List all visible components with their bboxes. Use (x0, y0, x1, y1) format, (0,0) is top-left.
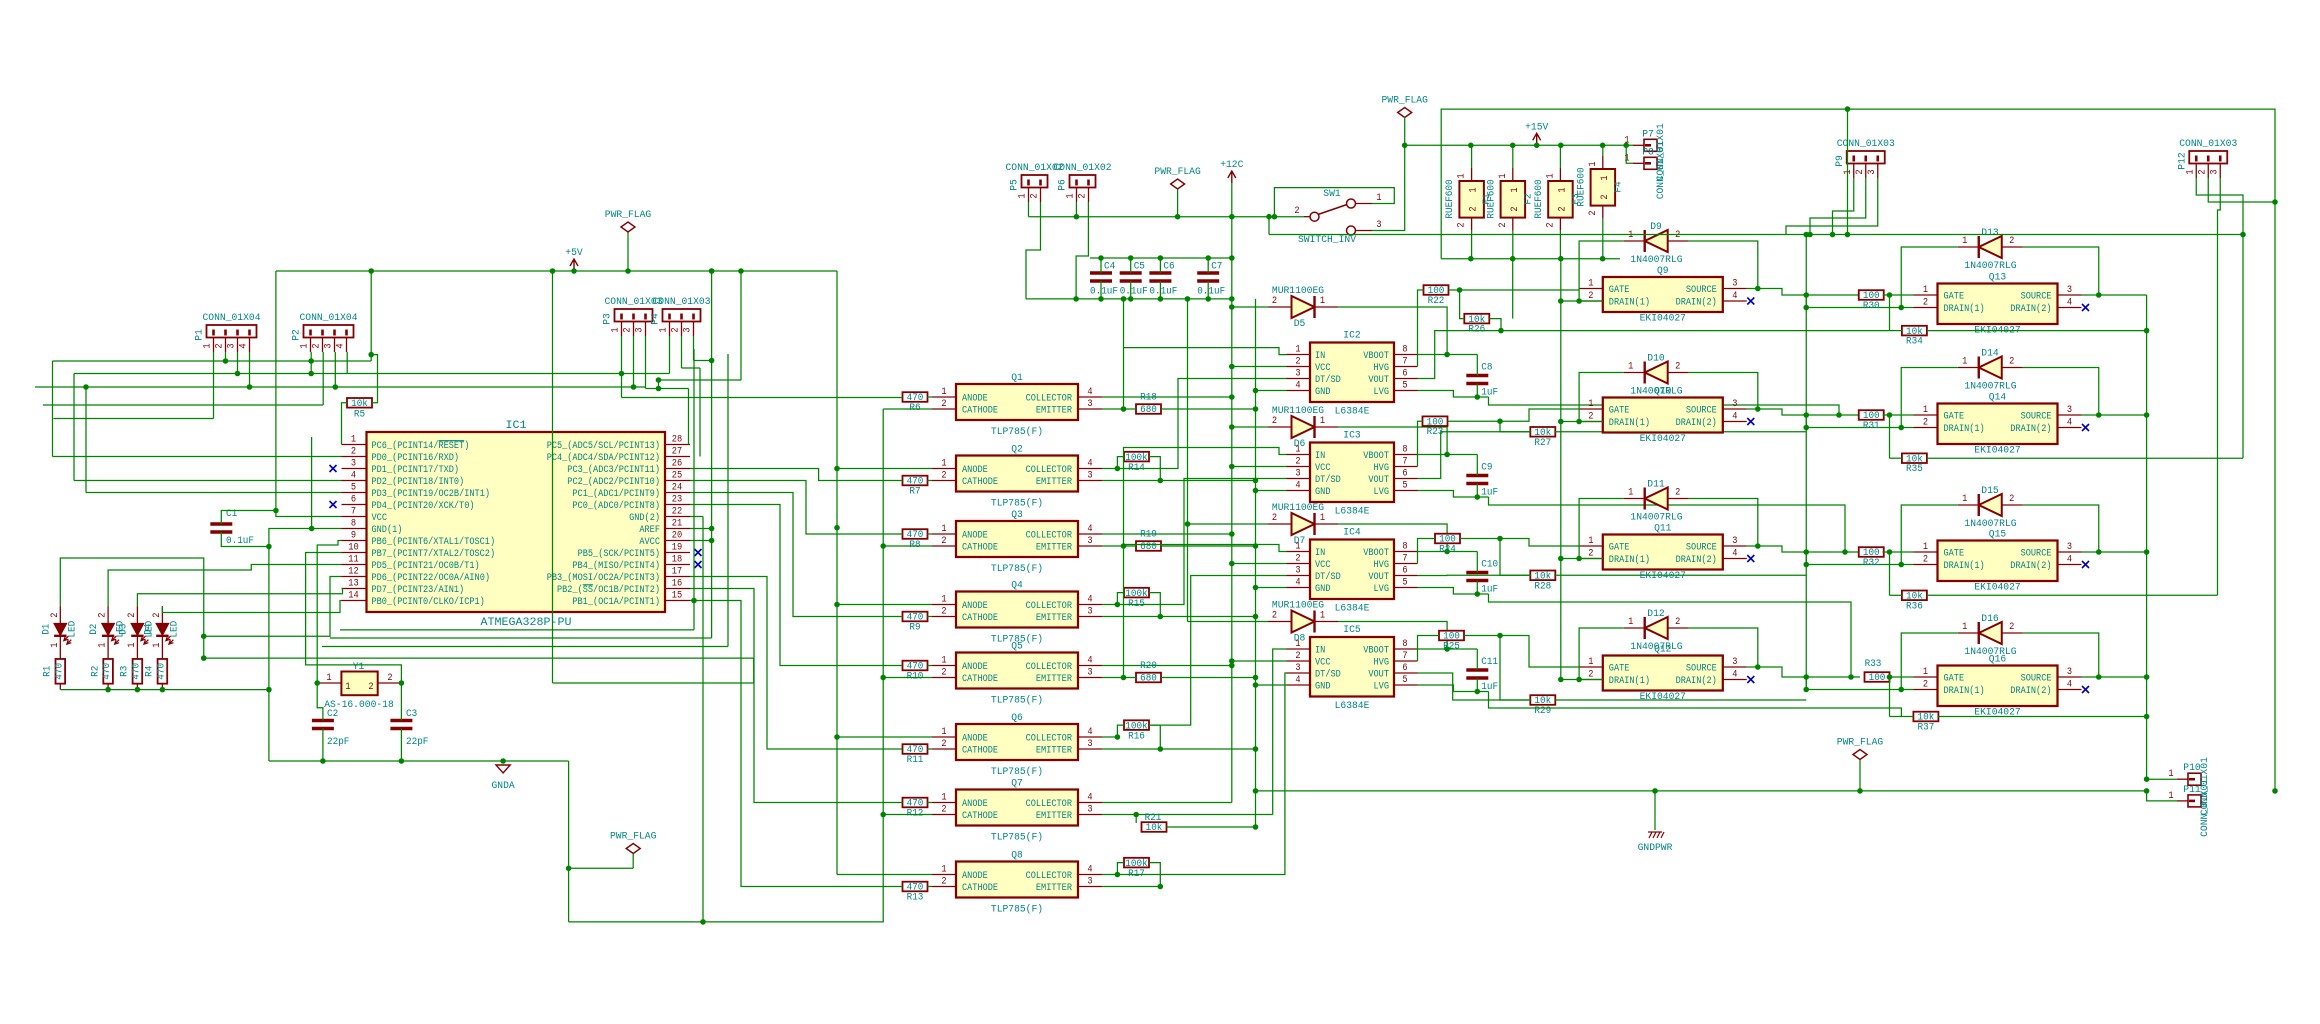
svg-text:PB5_(SCK/PCINT5): PB5_(SCK/PCINT5) (578, 548, 660, 560)
svg-text:4: 4 (1087, 387, 1092, 398)
svg-text:PC3_(ADC3/PCINT11): PC3_(ADC3/PCINT11) (567, 464, 660, 476)
svg-text:+15V: +15V (1525, 122, 1548, 133)
svg-text:R18: R18 (1140, 393, 1157, 404)
svg-text:1N4007RLG: 1N4007RLG (1964, 647, 2016, 658)
svg-text:100k: 100k (1125, 858, 1147, 870)
svg-text:MUR1100EG: MUR1100EG (1272, 286, 1324, 297)
svg-text:SOURCE: SOURCE (2021, 549, 2052, 560)
svg-text:1: 1 (152, 643, 163, 648)
svg-text:1: 1 (1498, 173, 1509, 178)
svg-text:VOUT: VOUT (1368, 670, 1389, 681)
svg-text:F2: F2 (1523, 193, 1534, 204)
svg-text:PC5_(ADC5/SCL/PCINT13): PC5_(ADC5/SCL/PCINT13) (547, 440, 660, 452)
svg-text:3: 3 (1087, 805, 1092, 816)
svg-text:LED: LED (68, 621, 79, 638)
svg-text:1: 1 (1588, 279, 1593, 290)
svg-text:P5: P5 (1010, 179, 1021, 191)
svg-text:PD0_(PCINT16/RXD): PD0_(PCINT16/RXD) (372, 452, 460, 464)
svg-text:VOUT: VOUT (1368, 572, 1389, 583)
svg-text:5: 5 (351, 483, 356, 494)
svg-text:HVG: HVG (1374, 463, 1390, 474)
svg-text:4: 4 (2067, 555, 2072, 566)
svg-text:SOURCE: SOURCE (2021, 292, 2052, 303)
svg-text:8: 8 (351, 519, 356, 530)
svg-text:2: 2 (1272, 296, 1277, 307)
svg-text:R27: R27 (1534, 438, 1551, 449)
svg-text:Q4: Q4 (1011, 581, 1023, 592)
svg-text:1: 1 (1624, 153, 1629, 164)
svg-text:IC5: IC5 (1343, 625, 1360, 636)
svg-text:DRAIN(2): DRAIN(2) (1676, 417, 1717, 429)
svg-text:TLP785(F): TLP785(F) (991, 832, 1043, 844)
svg-text:4: 4 (2067, 298, 2072, 309)
svg-text:DRAIN(1): DRAIN(1) (1609, 417, 1650, 429)
svg-text:CONN_01X02: CONN_01X02 (1054, 163, 1112, 174)
svg-text:1N4007RLG: 1N4007RLG (1630, 387, 1682, 398)
svg-text:2: 2 (1923, 298, 1928, 309)
svg-text:1: 1 (1843, 169, 1854, 174)
svg-text:P7: P7 (1642, 129, 1654, 140)
svg-text:EMITTER: EMITTER (1036, 883, 1072, 894)
svg-text:R1: R1 (43, 666, 54, 677)
svg-text:3: 3 (351, 459, 356, 470)
svg-text:DRAIN(1): DRAIN(1) (1609, 297, 1650, 309)
svg-text:CATHODE: CATHODE (962, 674, 998, 685)
svg-text:IN: IN (1315, 451, 1325, 462)
svg-text:9: 9 (351, 531, 356, 542)
svg-text:100k: 100k (1125, 720, 1147, 732)
svg-text:P8: P8 (1642, 147, 1654, 158)
svg-text:100k: 100k (1125, 588, 1147, 600)
svg-text:D1: D1 (41, 624, 52, 635)
svg-text:P4: P4 (651, 313, 662, 325)
svg-text:ANODE: ANODE (962, 871, 988, 882)
svg-text:Q1: Q1 (1011, 373, 1023, 384)
svg-text:4: 4 (336, 343, 347, 348)
svg-text:CONN_01X01: CONN_01X01 (2200, 779, 2211, 837)
svg-text:PD6_(PCINT22/OC0A/AIN0): PD6_(PCINT22/OC0A/AIN0) (372, 572, 491, 584)
svg-text:GATE: GATE (1944, 292, 1965, 303)
svg-text:2: 2 (1600, 194, 1611, 199)
svg-text:4: 4 (1087, 793, 1092, 804)
svg-text:DT/SD: DT/SD (1315, 374, 1341, 386)
svg-text:3: 3 (1295, 469, 1300, 480)
svg-text:1: 1 (1588, 657, 1593, 668)
svg-text:C7: C7 (1211, 262, 1222, 273)
svg-text:EKI04027: EKI04027 (1640, 314, 1686, 325)
svg-text:1: 1 (1457, 173, 1468, 178)
svg-text:PD4_(PCINT20/XCK/T0): PD4_(PCINT20/XCK/T0) (372, 500, 475, 512)
svg-text:Q7: Q7 (1011, 779, 1023, 790)
svg-text:HVG: HVG (1374, 560, 1390, 571)
svg-text:3: 3 (2067, 285, 2072, 296)
svg-text:470: 470 (54, 663, 65, 680)
svg-text:C9: C9 (1481, 463, 1492, 474)
svg-text:1: 1 (203, 343, 214, 348)
svg-text:VBOOT: VBOOT (1363, 548, 1389, 559)
svg-text:R16: R16 (1128, 732, 1145, 743)
svg-text:EMITTER: EMITTER (1036, 406, 1072, 417)
svg-text:GATE: GATE (1944, 412, 1965, 423)
svg-text:PWR_FLAG: PWR_FLAG (605, 210, 651, 221)
svg-text:R20: R20 (1140, 661, 1157, 672)
svg-text:8: 8 (1402, 542, 1407, 553)
svg-text:1N4007RLG: 1N4007RLG (1964, 261, 2016, 272)
svg-text:ANODE: ANODE (962, 531, 988, 542)
svg-text:RUEF600: RUEF600 (1534, 179, 1545, 218)
svg-text:15: 15 (672, 591, 682, 602)
svg-text:470: 470 (102, 663, 113, 680)
svg-text:D8: D8 (1294, 634, 1306, 645)
svg-text:SOURCE: SOURCE (1686, 406, 1717, 417)
svg-text:R9: R9 (909, 623, 920, 634)
svg-text:IC1: IC1 (506, 420, 527, 432)
svg-text:18: 18 (672, 555, 682, 566)
svg-text:1: 1 (1923, 667, 1928, 678)
svg-text:1: 1 (1962, 236, 1967, 247)
svg-text:2: 2 (1588, 412, 1593, 423)
svg-text:6: 6 (1402, 469, 1407, 480)
svg-text:D4: D4 (143, 624, 154, 635)
svg-text:DRAIN(1): DRAIN(1) (1944, 423, 1985, 435)
svg-text:GATE: GATE (1609, 664, 1630, 675)
svg-text:6: 6 (1402, 369, 1407, 380)
svg-text:R2: R2 (90, 666, 101, 677)
svg-text:1: 1 (1628, 362, 1633, 373)
svg-text:2: 2 (1078, 193, 1089, 198)
svg-text:D16: D16 (1981, 614, 1998, 625)
svg-text:P1: P1 (195, 329, 206, 341)
svg-text:PC1_(ADC1/PCINT9): PC1_(ADC1/PCINT9) (572, 488, 660, 500)
svg-text:D2: D2 (89, 624, 100, 635)
svg-text:3: 3 (2067, 542, 2072, 553)
svg-text:2: 2 (1457, 222, 1468, 227)
svg-text:1: 1 (1923, 542, 1928, 553)
svg-text:P6: P6 (1058, 179, 1069, 191)
svg-text:2: 2 (1510, 206, 1521, 211)
svg-text:Q6: Q6 (1011, 713, 1023, 724)
svg-text:2: 2 (1588, 210, 1599, 215)
svg-text:1: 1 (345, 682, 350, 693)
svg-text:4: 4 (1087, 727, 1092, 738)
svg-text:2: 2 (1557, 206, 1568, 211)
svg-text:CATHODE: CATHODE (962, 746, 998, 757)
svg-text:VOUT: VOUT (1368, 475, 1389, 486)
svg-text:Q9: Q9 (1657, 266, 1669, 277)
svg-text:R37: R37 (1918, 723, 1935, 734)
svg-text:4: 4 (1732, 412, 1737, 423)
svg-text:2: 2 (98, 613, 109, 618)
svg-text:Q5: Q5 (1011, 642, 1023, 653)
svg-text:C8: C8 (1481, 363, 1492, 374)
svg-text:PB4_(MISO/PCINT4): PB4_(MISO/PCINT4) (572, 560, 660, 572)
svg-text:TLP785(F): TLP785(F) (991, 426, 1043, 438)
svg-text:R21: R21 (1145, 813, 1162, 824)
svg-text:2: 2 (2009, 357, 2014, 368)
svg-text:680: 680 (1140, 674, 1157, 685)
svg-text:4: 4 (2067, 680, 2072, 691)
svg-text:3: 3 (1732, 657, 1737, 668)
svg-text:2: 2 (1272, 611, 1277, 622)
svg-text:COLLECTOR: COLLECTOR (1026, 394, 1072, 405)
svg-text:TLP785(F): TLP785(F) (991, 695, 1043, 707)
svg-text:PWR_FLAG: PWR_FLAG (610, 832, 656, 843)
svg-text:4: 4 (239, 343, 250, 348)
svg-text:3: 3 (2209, 169, 2220, 174)
svg-text:PD7_(PCINT23/AIN1): PD7_(PCINT23/AIN1) (372, 584, 465, 596)
svg-text:DRAIN(2): DRAIN(2) (2010, 423, 2051, 435)
svg-text:PD5_(PCINT21/OC0B/T1): PD5_(PCINT21/OC0B/T1) (372, 560, 480, 572)
svg-text:2: 2 (1923, 555, 1928, 566)
svg-text:2: 2 (1295, 554, 1300, 565)
svg-text:DRAIN(2): DRAIN(2) (2010, 303, 2051, 315)
svg-text:470: 470 (131, 663, 142, 680)
svg-text:4: 4 (1732, 291, 1737, 302)
svg-text:1N4007RLG: 1N4007RLG (1964, 519, 2016, 530)
svg-text:GATE: GATE (1944, 549, 1965, 560)
svg-text:22: 22 (672, 507, 682, 518)
svg-text:2: 2 (312, 343, 323, 348)
svg-text:CONN_01X04: CONN_01X04 (300, 313, 358, 324)
svg-text:0.1uF: 0.1uF (1197, 287, 1225, 298)
svg-text:2: 2 (941, 607, 946, 618)
svg-text:2: 2 (1294, 206, 1299, 217)
svg-text:CATHODE: CATHODE (962, 811, 998, 822)
svg-text:DRAIN(1): DRAIN(1) (1609, 554, 1650, 566)
svg-text:1: 1 (1376, 193, 1381, 204)
svg-text:23: 23 (672, 495, 682, 506)
svg-text:COLLECTOR: COLLECTOR (1026, 601, 1072, 612)
svg-text:1: 1 (1588, 161, 1599, 166)
svg-text:2: 2 (941, 471, 946, 482)
svg-text:L6384E: L6384E (1335, 407, 1370, 418)
svg-text:IN: IN (1315, 548, 1325, 559)
svg-text:D10: D10 (1647, 354, 1664, 365)
svg-text:COLLECTOR: COLLECTOR (1026, 465, 1072, 476)
svg-text:1: 1 (1923, 405, 1928, 416)
svg-text:PD2_(PCINT18/INT0): PD2_(PCINT18/INT0) (372, 476, 465, 488)
svg-text:2: 2 (351, 447, 356, 458)
svg-text:D9: D9 (1650, 222, 1662, 233)
svg-text:2: 2 (1469, 206, 1480, 211)
svg-text:3: 3 (1087, 877, 1092, 888)
svg-text:COLLECTOR: COLLECTOR (1026, 734, 1072, 745)
svg-text:D12: D12 (1647, 609, 1664, 620)
svg-text:R22: R22 (1428, 296, 1445, 307)
svg-text:2: 2 (2009, 494, 2014, 505)
svg-text:3: 3 (1087, 607, 1092, 618)
svg-text:EMITTER: EMITTER (1036, 811, 1072, 822)
svg-text:0.1uF: 0.1uF (1090, 287, 1118, 298)
svg-text:MUR1100EG: MUR1100EG (1272, 503, 1324, 514)
svg-text:R25: R25 (1443, 642, 1460, 653)
svg-text:8: 8 (1402, 639, 1407, 650)
svg-text:2: 2 (1588, 291, 1593, 302)
svg-text:2: 2 (368, 682, 373, 693)
svg-text:2: 2 (2197, 169, 2208, 174)
svg-text:CATHODE: CATHODE (962, 477, 998, 488)
svg-text:HVG: HVG (1374, 363, 1390, 374)
svg-text:3: 3 (683, 327, 694, 332)
svg-text:PD1_(PCINT17/TXD): PD1_(PCINT17/TXD) (372, 464, 460, 476)
svg-text:D11: D11 (1647, 480, 1664, 491)
svg-text:3: 3 (1087, 739, 1092, 750)
svg-text:R31: R31 (1863, 421, 1880, 432)
svg-text:D7: D7 (1294, 536, 1306, 547)
svg-text:VCC: VCC (1315, 658, 1331, 669)
svg-text:GND: GND (1315, 682, 1331, 693)
svg-text:3: 3 (1087, 536, 1092, 547)
svg-text:PC0_(ADC0/PCINT8): PC0_(ADC0/PCINT8) (572, 500, 660, 512)
svg-text:SOURCE: SOURCE (1686, 664, 1717, 675)
svg-text:CONN_01X03: CONN_01X03 (1837, 139, 1895, 150)
svg-text:2: 2 (941, 399, 946, 410)
svg-text:8: 8 (1402, 445, 1407, 456)
svg-text:GND(2): GND(2) (629, 512, 660, 524)
svg-text:1: 1 (1588, 399, 1593, 410)
svg-text:ANODE: ANODE (962, 734, 988, 745)
svg-text:EKI04027: EKI04027 (1974, 583, 2020, 594)
svg-text:R11: R11 (907, 755, 924, 766)
svg-text:CATHODE: CATHODE (962, 613, 998, 624)
svg-text:P2: P2 (292, 329, 303, 341)
svg-text:1: 1 (1320, 611, 1325, 622)
svg-text:ANODE: ANODE (962, 662, 988, 673)
svg-text:2: 2 (50, 613, 61, 618)
svg-text:VBOOT: VBOOT (1363, 646, 1389, 657)
svg-text:MUR1100EG: MUR1100EG (1272, 601, 1324, 612)
svg-text:MUR1100EG: MUR1100EG (1272, 406, 1324, 417)
svg-text:5: 5 (1402, 481, 1407, 492)
svg-text:C2: C2 (327, 709, 338, 720)
svg-text:10k: 10k (351, 398, 368, 410)
svg-text:R28: R28 (1534, 581, 1551, 592)
svg-text:1: 1 (941, 865, 946, 876)
svg-text:19: 19 (672, 543, 682, 554)
svg-text:ANODE: ANODE (962, 465, 988, 476)
svg-text:DRAIN(1): DRAIN(1) (1944, 303, 1985, 315)
svg-text:EKI04027: EKI04027 (1640, 571, 1686, 582)
svg-text:6: 6 (1402, 663, 1407, 674)
svg-text:1: 1 (2185, 169, 2196, 174)
svg-text:1N4007RLG: 1N4007RLG (1630, 255, 1682, 266)
svg-text:DRAIN(1): DRAIN(1) (1944, 560, 1985, 572)
svg-text:2: 2 (941, 805, 946, 816)
svg-text:IC4: IC4 (1343, 528, 1360, 539)
svg-text:D13: D13 (1981, 228, 1998, 239)
svg-text:R36: R36 (1906, 601, 1923, 612)
svg-text:5: 5 (1402, 381, 1407, 392)
svg-text:PWR_FLAG: PWR_FLAG (1837, 738, 1883, 749)
svg-text:16: 16 (672, 579, 682, 590)
svg-text:25: 25 (672, 471, 682, 482)
svg-text:2: 2 (1295, 651, 1300, 662)
svg-text:R32: R32 (1863, 558, 1880, 569)
svg-text:C6: C6 (1163, 262, 1174, 273)
svg-text:CATHODE: CATHODE (962, 406, 998, 417)
svg-text:L6384E: L6384E (1335, 604, 1370, 615)
svg-text:Q14: Q14 (1989, 393, 2006, 404)
svg-text:PWR_FLAG: PWR_FLAG (1154, 167, 1200, 178)
svg-text:COLLECTOR: COLLECTOR (1026, 531, 1072, 542)
svg-text:Q15: Q15 (1989, 530, 2006, 541)
svg-text:2: 2 (1675, 230, 1680, 241)
svg-text:R4: R4 (145, 666, 156, 677)
svg-text:EKI04027: EKI04027 (1974, 446, 2020, 457)
svg-text:DRAIN(2): DRAIN(2) (1676, 675, 1717, 687)
svg-text:4: 4 (1732, 670, 1737, 681)
svg-text:3: 3 (324, 343, 335, 348)
svg-text:680: 680 (1140, 542, 1157, 553)
svg-text:EKI04027: EKI04027 (1640, 434, 1686, 445)
svg-text:3: 3 (227, 343, 238, 348)
svg-text:1: 1 (659, 327, 670, 332)
svg-text:+5V: +5V (565, 248, 582, 259)
svg-text:2: 2 (623, 327, 634, 332)
svg-text:RUEF600: RUEF600 (1486, 179, 1497, 218)
svg-text:GND: GND (1315, 487, 1331, 498)
svg-text:5: 5 (1402, 675, 1407, 686)
svg-text:DRAIN(2): DRAIN(2) (2010, 560, 2051, 572)
svg-text:DRAIN(1): DRAIN(1) (1944, 685, 1985, 697)
svg-text:2: 2 (127, 613, 138, 618)
svg-text:LED: LED (170, 621, 181, 638)
svg-text:GATE: GATE (1609, 285, 1630, 296)
svg-text:1: 1 (1545, 173, 1556, 178)
svg-text:1: 1 (326, 673, 331, 684)
svg-text:0.1uF: 0.1uF (1120, 287, 1148, 298)
svg-text:IC3: IC3 (1343, 431, 1360, 442)
svg-text:Q13: Q13 (1989, 273, 2006, 284)
svg-text:VCC: VCC (372, 513, 388, 524)
svg-text:AVCC: AVCC (639, 537, 660, 548)
svg-text:VBOOT: VBOOT (1363, 451, 1389, 462)
svg-text:EMITTER: EMITTER (1036, 746, 1072, 757)
svg-text:C11: C11 (1481, 657, 1498, 668)
svg-text:1: 1 (941, 459, 946, 470)
svg-text:Y1: Y1 (353, 662, 365, 673)
svg-text:7: 7 (1402, 357, 1407, 368)
svg-text:HVG: HVG (1374, 658, 1390, 669)
svg-text:ANODE: ANODE (962, 601, 988, 612)
svg-text:D3: D3 (118, 624, 129, 635)
svg-text:L6384E: L6384E (1335, 701, 1370, 712)
svg-text:2: 2 (1545, 222, 1556, 227)
svg-text:1: 1 (941, 793, 946, 804)
svg-text:1: 1 (1962, 357, 1967, 368)
svg-text:CATHODE: CATHODE (962, 883, 998, 894)
svg-text:ANODE: ANODE (962, 394, 988, 405)
svg-text:CATHODE: CATHODE (962, 543, 998, 554)
svg-text:ATMEGA328P-PU: ATMEGA328P-PU (481, 617, 572, 629)
svg-text:1: 1 (941, 656, 946, 667)
svg-text:R33: R33 (1865, 659, 1882, 670)
svg-text:GND: GND (1315, 387, 1331, 398)
svg-text:R3: R3 (120, 666, 131, 677)
svg-text:C4: C4 (1104, 262, 1115, 273)
svg-text:3: 3 (1376, 220, 1381, 231)
svg-text:SOURCE: SOURCE (2021, 412, 2052, 423)
svg-text:3: 3 (635, 327, 646, 332)
svg-text:2: 2 (671, 327, 682, 332)
svg-text:22pF: 22pF (406, 737, 428, 748)
svg-text:3: 3 (1732, 279, 1737, 290)
svg-text:IN: IN (1315, 646, 1325, 657)
svg-text:D14: D14 (1981, 349, 1998, 360)
svg-text:3: 3 (1732, 536, 1737, 547)
svg-text:2: 2 (387, 673, 392, 684)
svg-text:DRAIN(2): DRAIN(2) (1676, 297, 1717, 309)
